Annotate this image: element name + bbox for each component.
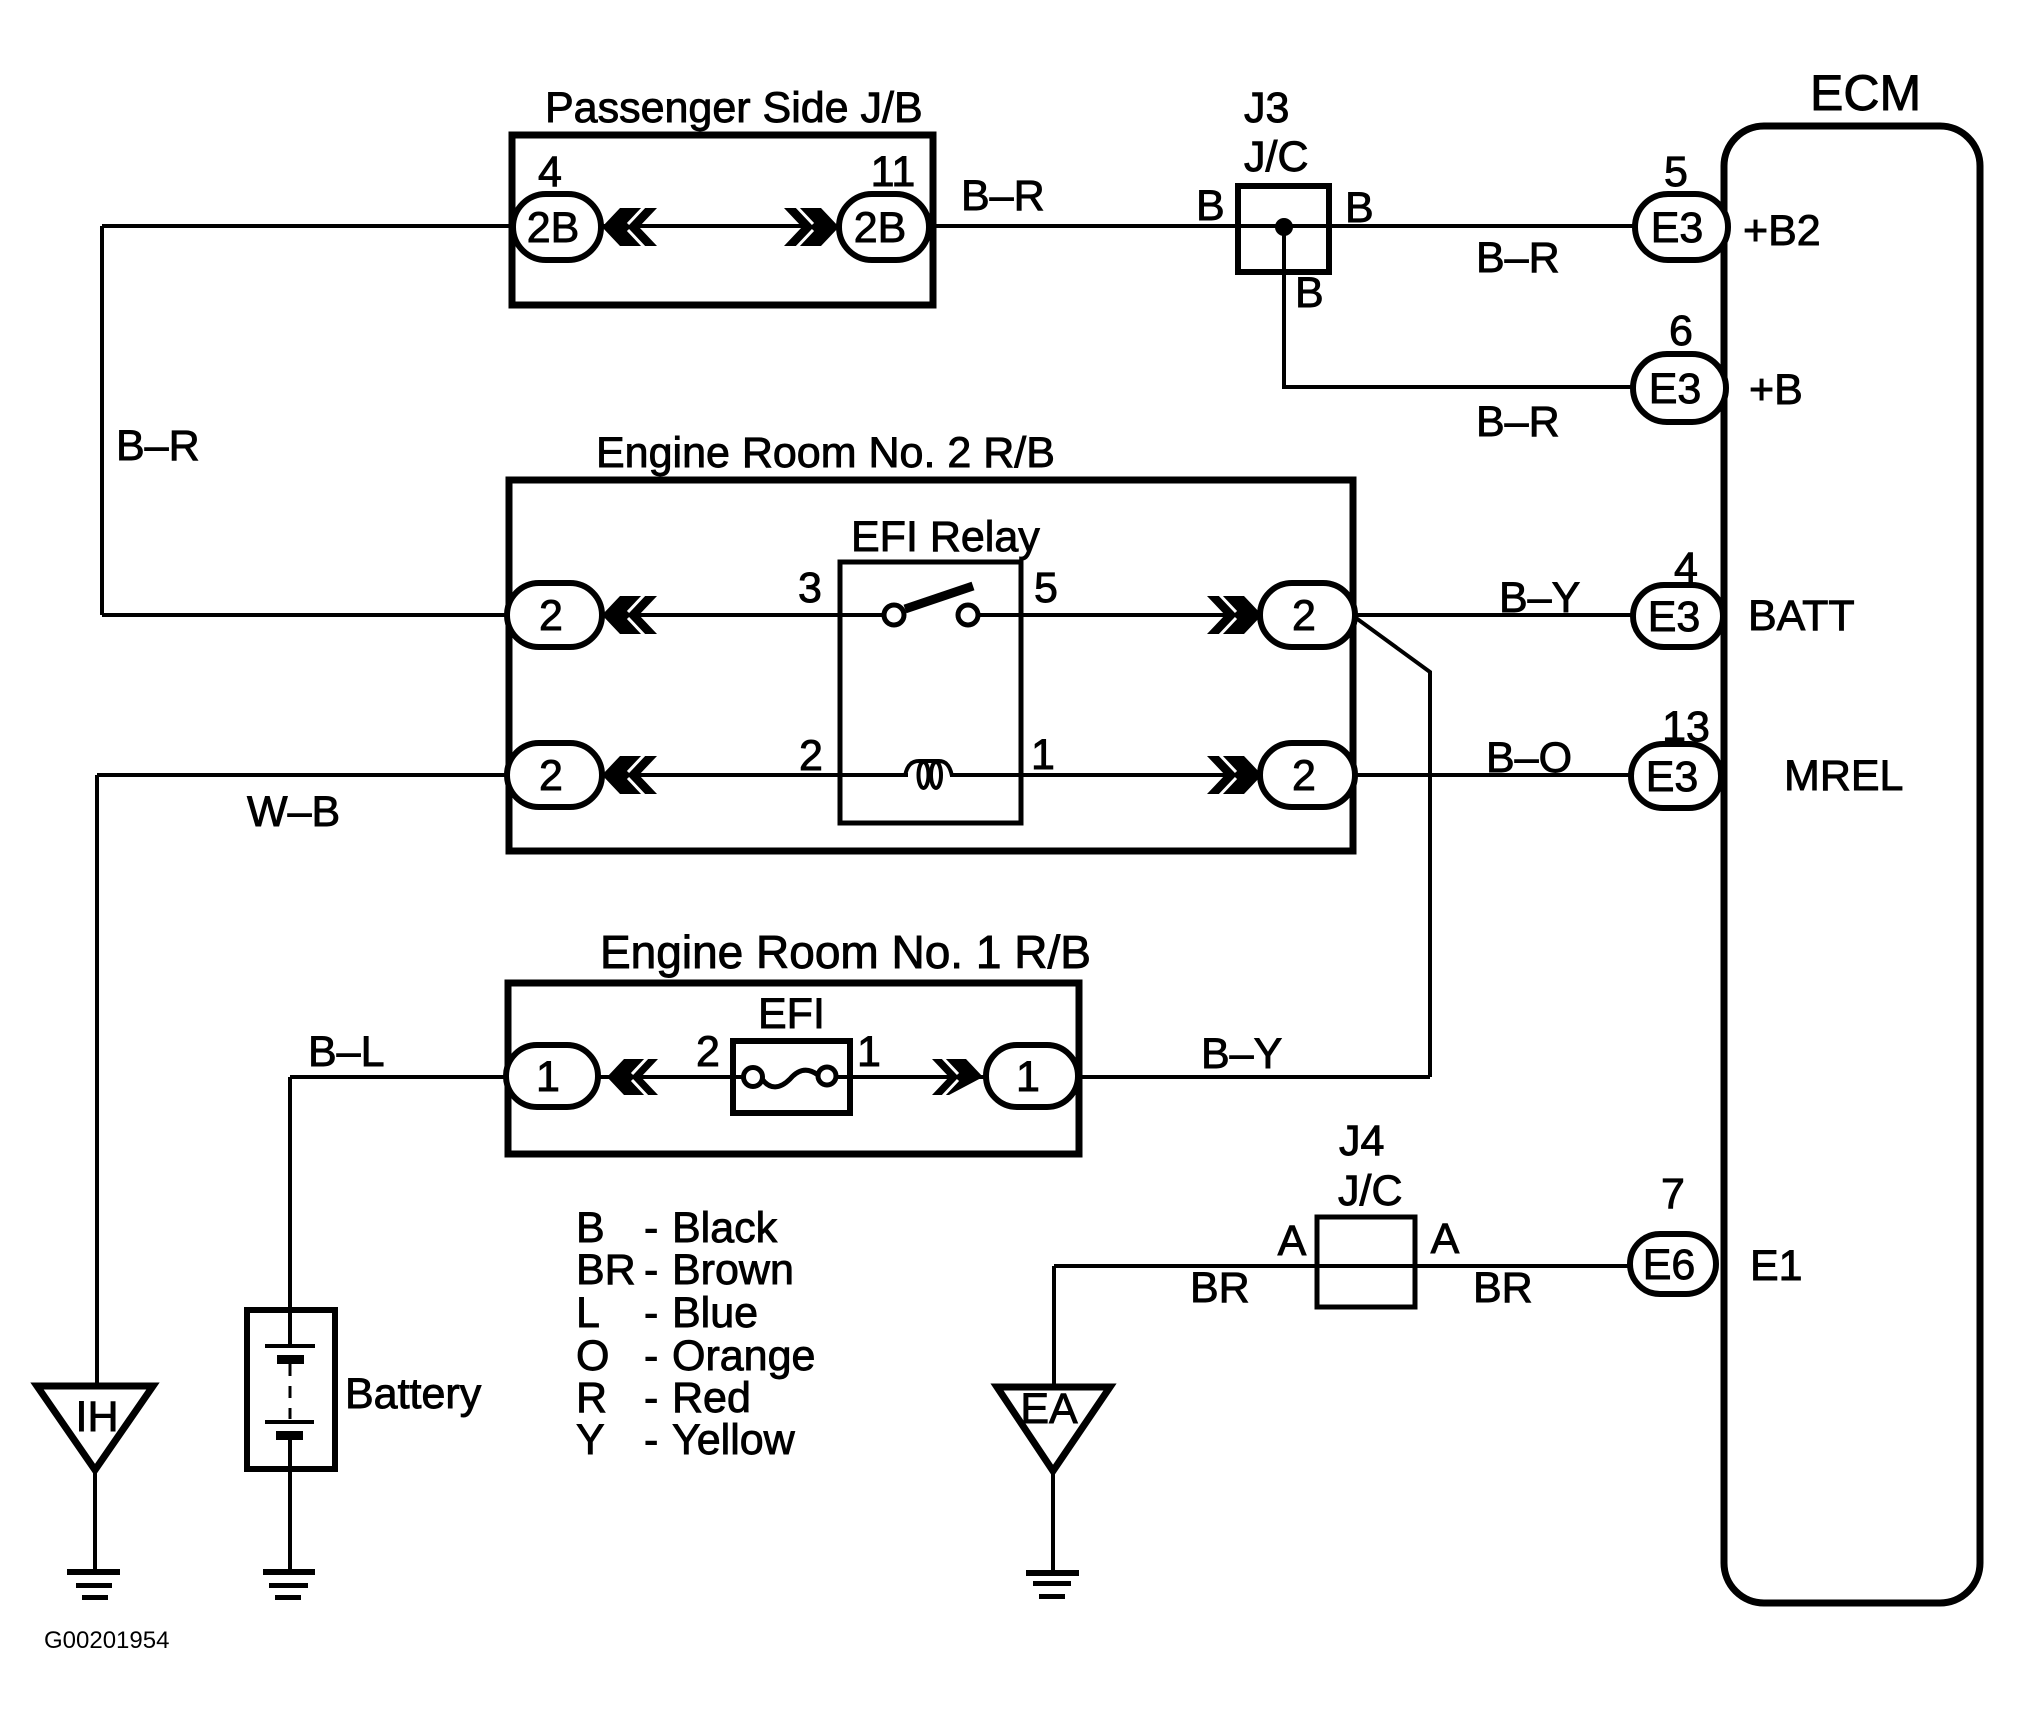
svg-text:Brown: Brown: [672, 1246, 794, 1294]
svg-text:B–R: B–R: [1476, 398, 1560, 446]
svg-text:2: 2: [799, 732, 823, 780]
svg-text:J/C: J/C: [1338, 1167, 1403, 1215]
svg-text:EFI: EFI: [758, 990, 825, 1038]
svg-text:B: B: [1196, 182, 1225, 230]
svg-text:E3: E3: [1648, 593, 1701, 641]
svg-text:A: A: [1431, 1215, 1460, 1263]
svg-text:-: -: [644, 1246, 658, 1294]
svg-text:EFI Relay: EFI Relay: [851, 513, 1040, 561]
svg-text:B: B: [1345, 184, 1374, 232]
svg-text:J4: J4: [1339, 1117, 1384, 1165]
svg-text:Yellow: Yellow: [672, 1416, 796, 1464]
svg-text:E3: E3: [1649, 365, 1702, 413]
svg-text:IH: IH: [76, 1393, 119, 1441]
svg-text:2: 2: [696, 1028, 720, 1076]
svg-text:2B: 2B: [854, 204, 907, 252]
svg-text:A: A: [1278, 1217, 1307, 1265]
svg-text:2: 2: [1292, 592, 1316, 640]
svg-text:3: 3: [798, 564, 822, 612]
svg-text:Orange: Orange: [672, 1332, 815, 1380]
svg-text:B: B: [1295, 269, 1324, 317]
svg-text:Battery: Battery: [345, 1370, 482, 1418]
svg-text:+B2: +B2: [1743, 207, 1821, 255]
svg-text:1: 1: [1016, 1053, 1040, 1101]
svg-text:B: B: [576, 1204, 605, 1252]
svg-text:L: L: [576, 1289, 600, 1337]
svg-text:1: 1: [536, 1053, 560, 1101]
svg-text:+B: +B: [1749, 366, 1803, 414]
svg-text:B–R: B–R: [116, 422, 200, 470]
svg-text:Passenger Side J/B: Passenger Side J/B: [545, 84, 923, 132]
svg-text:2: 2: [539, 592, 563, 640]
svg-text:BR: BR: [576, 1246, 636, 1294]
svg-text:1: 1: [1031, 731, 1055, 779]
svg-text:11: 11: [871, 148, 916, 196]
svg-text:Y: Y: [576, 1416, 605, 1464]
svg-text:Engine Room No. 1 R/B: Engine Room No. 1 R/B: [600, 926, 1091, 978]
svg-text:Red: Red: [672, 1374, 751, 1422]
svg-text:BR: BR: [1190, 1264, 1250, 1312]
svg-text:E3: E3: [1651, 204, 1704, 252]
svg-text:BR: BR: [1473, 1264, 1533, 1312]
svg-text:B–L: B–L: [308, 1028, 385, 1076]
svg-text:5: 5: [1664, 148, 1688, 196]
svg-text:-: -: [644, 1289, 658, 1337]
svg-text:O: O: [576, 1332, 609, 1380]
svg-text:-: -: [644, 1204, 658, 1252]
svg-text:W–B: W–B: [247, 788, 340, 836]
svg-text:2: 2: [1292, 752, 1316, 800]
svg-text:E6: E6: [1643, 1241, 1696, 1289]
svg-text:6: 6: [1669, 307, 1693, 355]
svg-text:J/C: J/C: [1244, 133, 1309, 181]
svg-text:EA: EA: [1020, 1385, 1078, 1433]
svg-text:B–Y: B–Y: [1201, 1030, 1282, 1078]
svg-text:-: -: [644, 1332, 658, 1380]
svg-text:Black: Black: [672, 1204, 778, 1252]
svg-text:ECM: ECM: [1810, 65, 1921, 121]
svg-text:BATT: BATT: [1748, 592, 1855, 640]
svg-text:E1: E1: [1750, 1242, 1803, 1290]
svg-text:4: 4: [538, 148, 562, 196]
svg-text:2: 2: [539, 752, 563, 800]
svg-text:Engine Room No. 2 R/B: Engine Room No. 2 R/B: [596, 429, 1055, 477]
svg-text:4: 4: [1674, 544, 1698, 592]
svg-text:B–R: B–R: [1476, 234, 1560, 282]
svg-text:MREL: MREL: [1784, 752, 1903, 800]
svg-text:5: 5: [1034, 564, 1058, 612]
svg-text:1: 1: [857, 1028, 881, 1076]
svg-text:B–Y: B–Y: [1499, 574, 1580, 622]
svg-text:2B: 2B: [527, 204, 580, 252]
svg-text:J3: J3: [1244, 84, 1289, 132]
svg-text:-: -: [644, 1416, 658, 1464]
svg-text:13: 13: [1662, 703, 1710, 751]
svg-text:7: 7: [1661, 1170, 1685, 1218]
svg-text:-: -: [644, 1374, 658, 1422]
svg-text:E3: E3: [1646, 753, 1699, 801]
svg-text:R: R: [576, 1374, 607, 1422]
svg-text:B–O: B–O: [1486, 734, 1572, 782]
svg-text:G00201954: G00201954: [44, 1627, 169, 1654]
svg-text:Blue: Blue: [672, 1289, 758, 1337]
svg-text:B–R: B–R: [961, 172, 1045, 220]
